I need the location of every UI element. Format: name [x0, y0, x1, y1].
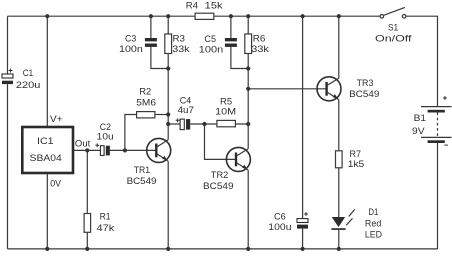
- resistor R1: [84, 214, 91, 233]
- wire TR3 collector to top rail: [338, 16, 340, 78]
- resistor R7: [336, 151, 343, 168]
- svg-text:IC1: IC1: [37, 136, 54, 147]
- svg-text:33k: 33k: [251, 44, 269, 55]
- svg-text:BC549: BC549: [349, 89, 379, 100]
- resistor R5: [217, 120, 236, 126]
- svg-text:Out: Out: [75, 139, 91, 150]
- svg-text:33k: 33k: [172, 44, 189, 55]
- wire Out row: IC1 to C2: [73, 149, 100, 151]
- junction bottom rail at R1: [85, 247, 89, 251]
- svg-text:C1: C1: [23, 68, 33, 79]
- junction C5/R6 bottom: [246, 66, 250, 70]
- svg-text:0V: 0V: [50, 179, 61, 190]
- capacitor C6: [297, 212, 308, 229]
- svg-text:15k: 15k: [205, 0, 223, 11]
- junction top rail at C5: [229, 14, 233, 18]
- switch S1: [380, 7, 406, 18]
- wire R1 drop: [86, 150, 88, 249]
- wire LED to bottom rail: [338, 230, 340, 249]
- wire top rail: [8, 15, 380, 17]
- battery B1: [421, 96, 452, 145]
- svg-text:D1: D1: [368, 207, 378, 218]
- capacitor C5: [225, 38, 237, 47]
- junction bottom rail at 0V: [45, 247, 49, 251]
- junction C3/R3 bottom: [166, 66, 170, 70]
- svg-text:47k: 47k: [97, 223, 115, 234]
- junction bottom rail at TR1 emitter: [166, 247, 170, 251]
- junction top rail at V+: [45, 14, 49, 18]
- svg-text:BC549: BC549: [203, 181, 234, 192]
- wire C3 vertical: [151, 16, 168, 68]
- junction bottom rail at C6: [301, 247, 305, 251]
- LED D1: [331, 209, 354, 230]
- wire Out row: C2 to TR1 base: [110, 149, 156, 151]
- wire R6 line down to TR2 collector: [247, 16, 249, 149]
- svg-text:R2: R2: [139, 87, 151, 98]
- svg-text:TR2: TR2: [211, 170, 229, 181]
- junction top rail at R6: [246, 14, 250, 18]
- wire TR3 emitter to R7: [338, 100, 340, 151]
- capacitor C3: [145, 38, 157, 47]
- svg-text:TR3: TR3: [357, 78, 374, 89]
- svg-text:S1: S1: [388, 23, 398, 34]
- svg-text:SBA04: SBA04: [30, 153, 63, 164]
- junction R2 right on collector line: [166, 112, 170, 116]
- svg-text:100u: 100u: [268, 222, 291, 233]
- wire R3 line down to TR1 collector: [167, 16, 169, 140]
- junction TR3 base branch: [246, 87, 250, 91]
- svg-text:On/Off: On/Off: [375, 34, 412, 45]
- wire C6 vertical from top rail: [302, 16, 304, 249]
- svg-text:V+: V+: [50, 114, 63, 125]
- svg-text:B1: B1: [414, 113, 426, 124]
- svg-text:100n: 100n: [119, 44, 143, 55]
- svg-text:R4: R4: [186, 0, 199, 11]
- svg-text:9V: 9V: [412, 126, 425, 137]
- wire R2 right to collector line: [155, 114, 168, 116]
- capacitor C2: [95, 143, 110, 155]
- wire V+ drop to IC1: [46, 16, 48, 127]
- svg-text:4u7: 4u7: [178, 105, 194, 116]
- svg-text:C5: C5: [204, 34, 216, 45]
- wire C5 vertical: [231, 16, 248, 68]
- junction top rail at C3: [149, 14, 153, 18]
- svg-text:BC549: BC549: [127, 176, 157, 187]
- wire 0V from IC1 to bottom rail: [46, 173, 48, 249]
- junction bottom rail at D1: [337, 247, 341, 251]
- svg-text:10M: 10M: [215, 106, 236, 117]
- wire bottom rail: [8, 248, 438, 250]
- junction top rail at TR3 collector: [337, 14, 341, 18]
- junction C4 left on collector line: [166, 122, 170, 126]
- svg-text:LED: LED: [365, 229, 382, 240]
- wire TR2 base drop: [205, 124, 237, 159]
- wire battery negative to bottom rail: [437, 143, 439, 249]
- wire C4 row left: [168, 123, 180, 125]
- junction Out row at R1: [85, 148, 89, 152]
- svg-text:10u: 10u: [97, 131, 114, 142]
- wire C4 row right to R5 and TR2 collector line: [190, 123, 248, 125]
- wire R7 to LED: [338, 168, 340, 217]
- svg-text:220u: 220u: [16, 80, 41, 91]
- capacitor C1: [2, 69, 13, 85]
- junction top rail at R3: [166, 14, 170, 18]
- wire TR2 emitter to bottom rail: [247, 170, 249, 249]
- wire left rail lower (C1 bottom): [7, 84, 9, 249]
- svg-text:C6: C6: [274, 211, 286, 222]
- svg-text:5M6: 5M6: [136, 97, 156, 108]
- wire TR3 base row: [248, 88, 326, 90]
- wire top right from switch to battery: [406, 16, 438, 106]
- svg-text:Red: Red: [365, 219, 381, 230]
- IC1 box: [22, 127, 73, 173]
- junction C4/R5/TR2 base: [202, 122, 206, 126]
- resistor R3: [165, 34, 172, 54]
- svg-text:TR1: TR1: [134, 165, 150, 176]
- transistor TR3: [317, 77, 341, 101]
- junction Out row at C2/R2 riser: [123, 148, 127, 152]
- junction bottom rail at TR2 emitter: [246, 247, 250, 251]
- capacitor C4: [176, 118, 191, 129]
- wire riser C2 node to R2 left: [125, 115, 137, 151]
- transistor TR1: [147, 138, 171, 162]
- junction top rail at C6: [301, 14, 305, 18]
- resistor R6: [245, 34, 252, 54]
- transistor TR2: [226, 147, 250, 171]
- svg-text:100n: 100n: [199, 44, 223, 55]
- svg-text:1k5: 1k5: [348, 159, 364, 170]
- junction R5 right on TR2 collector line: [246, 122, 250, 126]
- wire TR1 emitter to bottom rail: [167, 161, 169, 249]
- resistor R2: [137, 112, 155, 118]
- svg-text:R1: R1: [100, 212, 111, 223]
- wire left rail upper (C1 top): [7, 16, 9, 74]
- resistor R4: [195, 13, 214, 19]
